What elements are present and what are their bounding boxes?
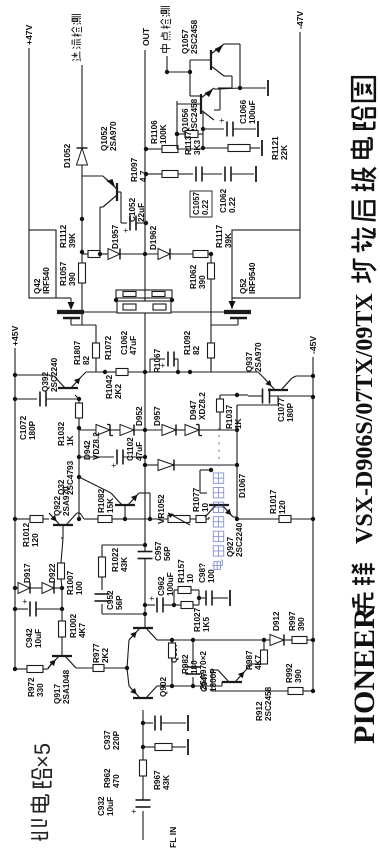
svg-text:C952: C952 <box>106 590 115 610</box>
svg-text:XDZ8.2: XDZ8.2 <box>198 392 207 420</box>
resistor R1077 10 <box>190 487 210 522</box>
resistor R1027 1K5 <box>174 602 211 633</box>
resistor R1117 39K <box>170 224 233 257</box>
svg-text:2SC2240: 2SC2240 <box>50 357 59 392</box>
svg-text:+: + <box>147 596 157 601</box>
resistor R1082 15K <box>97 488 115 522</box>
ground bar <box>187 739 189 755</box>
wire gate1 lead <box>71 318 96 343</box>
diode D1067 <box>143 460 247 499</box>
wire Q32 emitter <box>139 493 152 521</box>
svg-text:1800P: 1800P <box>209 668 218 692</box>
svg-text:C98?: C98? <box>198 563 207 583</box>
resistor R987 4K7 <box>245 638 268 670</box>
svg-text:390: 390 <box>297 617 306 631</box>
svg-text:R1012: R1012 <box>22 522 31 547</box>
wire <box>77 513 98 519</box>
wire <box>144 614 146 628</box>
node FL IN input <box>143 811 178 848</box>
wire <box>206 517 237 519</box>
wire gate2 lead <box>211 318 238 325</box>
svg-text:FL IN: FL IN <box>168 827 178 848</box>
svg-text:120: 120 <box>31 533 40 547</box>
svg-text:Q922: Q922 <box>53 496 62 516</box>
wire <box>81 165 83 219</box>
diode D922 <box>42 563 57 594</box>
transistor Q1057 2SC2458 <box>181 19 224 76</box>
svg-text:Q32: Q32 <box>57 479 66 495</box>
transistor Q907 <box>129 628 208 690</box>
svg-text:R1027: R1027 <box>193 607 202 632</box>
capacitor C987 100 <box>198 563 228 606</box>
svg-text:100uF: 100uF <box>248 100 257 124</box>
wire Q937 emitter <box>188 370 264 378</box>
wire Q1052 collector <box>100 207 103 254</box>
svg-text:390: 390 <box>198 275 207 289</box>
svg-text:R1037: R1037 <box>225 404 234 429</box>
title text <box>348 77 380 744</box>
svg-text:100: 100 <box>207 569 216 583</box>
diode D957 <box>153 406 176 436</box>
svg-text:C1062: C1062 <box>120 330 129 355</box>
svg-text:R1022: R1022 <box>111 547 120 572</box>
resistor R962 470 <box>103 760 147 788</box>
wire <box>142 776 144 800</box>
svg-text:D1052: D1052 <box>63 143 72 168</box>
svg-text:R1072: R1072 <box>104 335 113 360</box>
wire <box>54 586 64 611</box>
svg-text:Q1056: Q1056 <box>181 108 190 133</box>
svg-text:OUT: OUT <box>141 27 151 46</box>
svg-text:Q917: Q917 <box>53 684 62 704</box>
wire diff tail <box>104 666 129 670</box>
svg-text:2SC2458: 2SC2458 <box>190 19 199 54</box>
note this-circuit x5 <box>30 743 55 841</box>
svg-text:330: 330 <box>36 683 45 697</box>
mosfet Q52 IRF9540 <box>224 230 300 318</box>
svg-text:D912: D912 <box>272 611 281 631</box>
wire <box>141 710 145 760</box>
transistor R912 2SC2458 <box>218 670 273 721</box>
svg-text:C1102: C1102 <box>126 437 135 461</box>
zener D947 XDZ8.2 <box>185 392 207 436</box>
wire <box>303 689 315 693</box>
svg-text:R1007: R1007 <box>66 570 75 595</box>
wire <box>176 429 185 431</box>
resistor R1157 10 <box>174 559 199 594</box>
diode D952 <box>120 406 144 436</box>
wire Q1052 emitter <box>82 176 105 178</box>
svg-text:390: 390 <box>68 272 77 286</box>
svg-text:R1057: R1057 <box>59 261 68 286</box>
capacitor C942 10uF <box>13 599 62 648</box>
power rail -47V <box>295 11 305 230</box>
wire Q922 base <box>61 525 63 538</box>
diode D1962 <box>149 225 170 259</box>
svg-text:C1077: C1077 <box>277 397 286 422</box>
svg-text:R982: R982 <box>181 654 190 674</box>
power rail +45V <box>10 325 20 669</box>
resistor R967 43K <box>143 744 186 791</box>
svg-text:2SC4793: 2SC4793 <box>66 460 75 495</box>
svg-text:D1067: D1067 <box>238 473 247 498</box>
wire Q392 collector <box>50 375 54 376</box>
power rail -45V <box>308 336 318 693</box>
transistor Q32 2SC4793 <box>57 460 139 519</box>
wire gate line lower <box>210 279 212 372</box>
capacitor C1057 0.22 <box>178 167 212 218</box>
svg-text:VSX-D906S/07TX/09TX: VSX-D906S/07TX/09TX <box>352 293 378 544</box>
wire <box>76 667 93 669</box>
svg-text:VDZ8.2: VDZ8.2 <box>92 432 101 460</box>
resistor R1037 1K <box>217 395 244 430</box>
svg-text:+: + <box>217 118 227 123</box>
wire <box>134 428 162 432</box>
wire Q392 emitter <box>82 370 107 376</box>
svg-text:C1066: C1066 <box>239 99 248 124</box>
svg-text:R977: R977 <box>92 643 101 663</box>
svg-text:2SC2458: 2SC2458 <box>190 98 199 133</box>
wire <box>218 76 232 88</box>
svg-text:39K: 39K <box>68 233 77 248</box>
wire gate line upper <box>80 217 84 252</box>
svg-text:D957: D957 <box>153 406 162 426</box>
wire Q912 base <box>246 664 264 670</box>
resistor R1097 4.7 <box>130 157 178 182</box>
resistor pack R1067 <box>117 301 171 373</box>
svg-text:Q52: Q52 <box>239 278 248 294</box>
wire <box>173 590 175 605</box>
resistor R1022 43K <box>99 545 146 577</box>
capacitor C957 56P <box>138 541 173 561</box>
svg-text:VR1052: VR1052 <box>157 494 166 524</box>
resistor R1057 390 <box>59 250 86 325</box>
svg-text:C962: C962 <box>157 576 166 596</box>
svg-text:47uF: 47uF <box>129 336 138 355</box>
resistor R1012 120 <box>22 516 43 548</box>
wire <box>114 290 174 302</box>
transistor Q937 2SA970 <box>237 342 292 430</box>
svg-text:220P: 220P <box>112 730 121 750</box>
wire <box>13 517 30 521</box>
ground bar <box>187 715 189 731</box>
svg-text:1K: 1K <box>234 418 243 429</box>
svg-text:56P: 56P <box>115 595 124 610</box>
wire <box>77 426 96 430</box>
svg-text:R1112: R1112 <box>59 224 68 248</box>
svg-text:43K: 43K <box>162 775 171 790</box>
resistor R1092 82 <box>183 325 215 358</box>
ground bar <box>257 121 259 137</box>
svg-text:×5: ×5 <box>30 743 55 768</box>
svg-text:IRF540: IRF540 <box>42 267 51 294</box>
svg-text:390: 390 <box>294 669 303 683</box>
resistor R977 2K2 <box>92 643 110 672</box>
wire emitter line <box>178 112 205 150</box>
wire <box>61 644 63 656</box>
svg-text:R1106: R1106 <box>150 120 159 144</box>
resistor R1106 100K <box>144 120 178 153</box>
svg-text:+: + <box>129 809 139 814</box>
svg-text:1K5: 1K5 <box>202 617 211 632</box>
transistor Q927 <box>205 505 244 557</box>
svg-text:C937: C937 <box>103 730 112 750</box>
resistor R992 390 <box>285 663 303 695</box>
wire bias top line <box>77 418 81 521</box>
capacitor C1102 47uF <box>79 437 147 468</box>
svg-text:180P: 180P <box>28 420 37 440</box>
diode D1957 <box>98 224 120 259</box>
wire gate2 <box>190 358 211 372</box>
wire <box>125 518 168 520</box>
svg-text:47uF: 47uF <box>135 442 144 461</box>
capacitor C1072 180P <box>13 392 81 441</box>
wire <box>127 640 129 668</box>
wire <box>199 429 237 431</box>
svg-text:R967: R967 <box>153 770 162 790</box>
svg-text:R992: R992 <box>285 663 294 683</box>
svg-text:R1062: R1062 <box>189 264 198 289</box>
svg-text:Q392: Q392 <box>41 372 50 392</box>
ground bar <box>229 590 231 606</box>
svg-text:C1052: C1052 <box>128 197 137 222</box>
svg-text:D947: D947 <box>189 400 198 420</box>
resistor R997 390 <box>288 611 307 644</box>
wire Q42 drain <box>29 298 75 310</box>
wire Q52 source <box>171 311 225 313</box>
svg-text:-45V: -45V <box>308 336 318 354</box>
variable resistor VR1052 <box>157 494 190 525</box>
capacitor C947 1800P <box>172 638 218 692</box>
wire Q32 collector <box>77 475 111 493</box>
svg-text:22K: 22K <box>280 145 289 160</box>
svg-text:R1121: R1121 <box>271 136 280 160</box>
svg-text:100K: 100K <box>159 124 168 144</box>
svg-text:R1097: R1097 <box>130 157 139 182</box>
svg-text:180P: 180P <box>286 402 295 422</box>
svg-text:1K: 1K <box>66 435 75 446</box>
wire Q912 emitter <box>212 670 288 691</box>
wire <box>110 429 120 431</box>
svg-text:2K2: 2K2 <box>114 384 123 399</box>
svg-text:Q937: Q937 <box>245 352 254 372</box>
svg-text:15K: 15K <box>106 498 115 513</box>
svg-text:R1032: R1032 <box>57 421 66 446</box>
mosfet Q42 IRF540 <box>29 230 84 318</box>
resistor R1137 3K3 <box>175 131 203 156</box>
svg-text:Q902: Q902 <box>159 677 168 697</box>
ground bar <box>267 80 269 96</box>
resistor R1032 1K <box>57 399 83 446</box>
svg-text:22uF: 22uF <box>137 203 146 222</box>
svg-text:2SA970: 2SA970 <box>254 342 263 372</box>
svg-text:0.22: 0.22 <box>201 199 210 215</box>
capacitor C1062 47uF <box>120 330 190 374</box>
svg-text:R997: R997 <box>288 611 297 631</box>
resistor R982 180 <box>169 638 200 688</box>
wire <box>193 682 222 686</box>
resistor R1807 82 <box>73 340 100 365</box>
svg-text:Q927: Q927 <box>226 537 235 557</box>
svg-text:39K: 39K <box>224 233 233 248</box>
svg-text:C1072: C1072 <box>19 415 28 440</box>
wire feedback line <box>143 543 147 616</box>
label midpoint-detect <box>160 7 170 75</box>
svg-text:D1962: D1962 <box>149 225 158 250</box>
capacitor C1062b 0.22 <box>202 167 254 214</box>
transistor Q1056 2SC2458 <box>177 88 214 133</box>
wire Q1057 base <box>167 60 211 72</box>
svg-text:C942: C942 <box>25 628 34 648</box>
svg-text:4K7: 4K7 <box>78 623 87 638</box>
svg-text:D922: D922 <box>48 563 57 583</box>
wire <box>157 685 172 687</box>
resistor pack R1072 <box>104 290 172 360</box>
svg-text:+: + <box>109 463 119 468</box>
ground bar <box>261 140 263 156</box>
svg-text:43K: 43K <box>120 557 129 572</box>
wire <box>193 639 264 641</box>
transistor Q902 <box>129 677 168 698</box>
resistor R1062 390 <box>189 252 215 289</box>
svg-text:Q1057: Q1057 <box>181 29 190 54</box>
label overcurrent-detect <box>72 15 82 62</box>
resistor R1017 120 <box>237 489 315 522</box>
svg-text:+: + <box>20 599 30 604</box>
wire <box>13 373 50 377</box>
svg-text:C1057: C1057 <box>192 192 201 215</box>
svg-text:120: 120 <box>278 500 287 514</box>
svg-text:56P: 56P <box>163 546 172 561</box>
wire bias bottom <box>235 405 239 521</box>
wire <box>127 668 129 686</box>
svg-text:IRF9540: IRF9540 <box>248 262 257 294</box>
resistor R1042 2K2 <box>105 369 147 400</box>
wire <box>112 517 127 521</box>
svg-text:100: 100 <box>75 581 84 595</box>
svg-text:R1002: R1002 <box>69 613 78 638</box>
transistor Q1052 2SA970 <box>100 121 118 207</box>
capacitor C937 220P <box>103 716 186 751</box>
wire <box>220 44 266 90</box>
resistor R972 330 <box>27 666 45 698</box>
svg-text:R1092: R1092 <box>183 330 192 355</box>
svg-text:R1082: R1082 <box>97 488 106 513</box>
svg-text:2K2: 2K2 <box>101 648 110 663</box>
svg-text:10: 10 <box>186 573 195 583</box>
transistor Q922 <box>43 486 77 525</box>
svg-text:C932: C932 <box>97 796 106 816</box>
svg-text:+45V: +45V <box>10 325 20 346</box>
svg-text:C947: C947 <box>200 672 209 692</box>
wire Q52 drain <box>229 298 241 309</box>
transistor Q917 <box>43 656 76 704</box>
node OUT rail <box>141 27 151 551</box>
svg-text:R1137: R1137 <box>184 131 193 155</box>
diode D917 <box>18 563 32 594</box>
wire gate1 <box>95 358 97 372</box>
ground bar <box>255 166 257 182</box>
resistor R1007 100 <box>58 538 85 595</box>
svg-text:PIONEER: PIONEER <box>348 607 380 744</box>
svg-text:Q1052: Q1052 <box>100 126 109 151</box>
wire <box>307 638 315 642</box>
svg-text:R912: R912 <box>255 701 264 721</box>
svg-text:R962: R962 <box>103 768 112 788</box>
capacitor C1052 22uF <box>117 192 148 233</box>
svg-text:R1042: R1042 <box>105 374 114 399</box>
svg-text:R987: R987 <box>245 650 254 670</box>
svg-text:R1157: R1157 <box>177 559 186 583</box>
svg-text:C1062: C1062 <box>219 188 228 213</box>
wire <box>214 89 220 110</box>
svg-text:10uF: 10uF <box>34 629 43 648</box>
resistor R1112 39K <box>59 224 100 257</box>
svg-text:2SC2240: 2SC2240 <box>235 522 244 557</box>
svg-text:D1957: D1957 <box>111 224 120 249</box>
svg-text:10uF: 10uF <box>106 797 115 816</box>
svg-text:Q42: Q42 <box>33 278 42 294</box>
wire <box>13 586 18 590</box>
watermark <box>212 426 226 569</box>
svg-text:R972: R972 <box>27 677 36 697</box>
svg-text:R1067: R1067 <box>153 348 162 373</box>
capacitor C932 10uF <box>97 796 151 816</box>
resistor R1002 4K7 <box>59 609 88 644</box>
wire <box>30 587 42 589</box>
svg-text:-47V: -47V <box>295 11 305 29</box>
wire Q937 collector <box>292 374 315 378</box>
power rail +47V <box>24 24 34 230</box>
resistor R1121 22K <box>203 136 289 160</box>
svg-text:+: + <box>121 228 131 233</box>
wire Q42 source <box>83 311 117 313</box>
svg-text:D917: D917 <box>23 563 32 583</box>
svg-text:10: 10 <box>201 502 210 512</box>
svg-text:R1117: R1117 <box>215 224 224 248</box>
wire cross couple <box>188 70 201 96</box>
svg-text:82: 82 <box>192 345 201 355</box>
svg-text:C957: C957 <box>154 541 163 561</box>
diode D1052 <box>63 143 88 168</box>
svg-text:R1807: R1807 <box>73 340 82 365</box>
capacitor C952 56P <box>95 577 146 614</box>
wire base line <box>175 101 179 149</box>
wire <box>197 590 201 605</box>
wire overcurrent-detect <box>81 65 83 148</box>
capacitor C1077 180P <box>235 389 315 423</box>
svg-text:· · · · · ·: · · · · · · <box>212 426 226 467</box>
svg-text:0.22: 0.22 <box>228 197 237 213</box>
svg-text:4K7: 4K7 <box>254 655 263 670</box>
svg-text:4.7: 4.7 <box>139 170 148 182</box>
svg-text:82: 82 <box>82 355 91 365</box>
transistor Q392 2SC2240 <box>41 357 82 399</box>
wire <box>120 252 158 256</box>
wire <box>284 639 292 641</box>
svg-text:+47V: +47V <box>24 24 34 45</box>
svg-text:470: 470 <box>112 774 121 788</box>
svg-text:3K3: 3K3 <box>193 140 202 155</box>
capacitor C962 100uF <box>145 572 176 612</box>
svg-text:2SA970: 2SA970 <box>109 121 118 151</box>
wire <box>13 667 27 671</box>
diode D912 <box>264 611 284 646</box>
wire Q927 collector <box>200 468 213 493</box>
capacitor C1066 100uF <box>203 99 257 136</box>
svg-text:D952: D952 <box>135 406 144 426</box>
wire <box>157 639 172 641</box>
